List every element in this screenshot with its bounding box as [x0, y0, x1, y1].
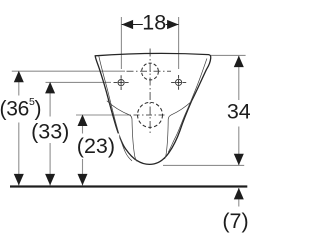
arrowhead 34 down [234, 154, 244, 166]
white mask for label 33 [31, 117, 71, 144]
wire: extension line left of dim 18 [120, 17, 122, 69]
funnel line left [107, 101, 137, 162]
arrowhead 34 up [234, 56, 244, 68]
arrowhead 23 up [78, 115, 88, 127]
wire: dim line 36.5 [18, 71, 20, 185]
wire: dash-dot horizontal centerline of outlet [134, 114, 167, 116]
wire: reference line for dim 36.5 (inlet centerline) [12, 70, 125, 72]
wire: dim line 34 [238, 56, 240, 165]
fixing hole right circle [176, 79, 182, 85]
floor line [10, 185, 247, 187]
wire: extension line right of dim 18 [178, 17, 180, 69]
wire: stub line of dim 7 [238, 188, 240, 207]
wire: reference line for dim 33 [46, 81, 112, 83]
arrowhead 36.5 down [14, 174, 24, 186]
wire: dim line 33 [49, 82, 51, 185]
svg-text:(23): (23) [77, 134, 115, 158]
wire: reference line for dim 23 (outlet centerline) [76, 114, 131, 116]
outlet dashed circle [138, 102, 163, 127]
toilet pan inner right edge [168, 59, 207, 153]
arrowhead 7 up [234, 188, 244, 200]
svg-text:(33): (33) [31, 120, 69, 144]
wire: dash-dot centerline of inlet circle [127, 70, 172, 72]
arrowhead 18 left [122, 20, 134, 29]
svg-text:34: 34 [227, 99, 250, 123]
wire: dim line 23 [82, 115, 84, 185]
wire: dim line 18 [122, 24, 179, 26]
white mask for label 34 [227, 100, 250, 127]
svg-text:(7): (7) [222, 209, 248, 233]
arrowhead 33 up [45, 82, 55, 94]
white mask for label 36.5 [0, 96, 42, 123]
arrowhead 33 down [45, 174, 55, 186]
inlet dashed circle [142, 63, 159, 80]
arrowhead 18 right [167, 20, 179, 29]
fixing hole right cross vertical [178, 75, 180, 90]
toilet pan outer silhouette [95, 53, 211, 164]
white mask for label 18 [143, 14, 166, 31]
wire: vertical dash-dot centerline of pan [149, 49, 151, 134]
arrowhead 36.5 up [14, 71, 24, 83]
funnel line right [165, 102, 192, 159]
fixing hole right cross horizontal [171, 81, 186, 83]
svg-text:(365): (365) [0, 96, 41, 121]
fixing hole left circle [118, 80, 124, 86]
white mask for label 23 [77, 134, 120, 160]
arrowhead 23 down [78, 174, 88, 186]
fixing hole left cross horizontal [114, 82, 129, 84]
wire: bottom reference line for dims 34 and 7 [163, 164, 244, 166]
wire: top reference line for dim 34 [211, 54, 246, 56]
svg-text:18: 18 [142, 11, 166, 35]
toilet pan inner left edge [99, 56, 132, 161]
fixing hole left cross vertical [120, 75, 122, 90]
